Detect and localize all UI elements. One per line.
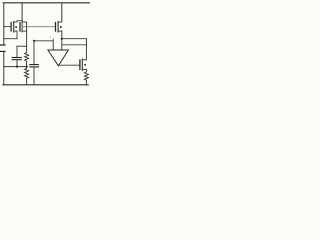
capacitor C2 bottom plate (30, 66, 39, 68)
node dot R1 bottom (26, 66, 28, 68)
wire source to left rail (4, 38, 17, 40)
wire M3 drain to top rail (61, 3, 63, 22)
wire M4 drain up (85, 39, 87, 60)
node dot C2 top (33, 40, 35, 42)
transistor M1 drain lead (14, 21, 17, 23)
transistor M1 gate bar (10, 23, 12, 32)
wire upper right bus (62, 38, 87, 40)
transistor M3 gate bar (55, 23, 57, 32)
wire M1 source down (16, 31, 18, 39)
wire op-amp plus input (34, 41, 53, 50)
node dot C1 bottom (16, 66, 18, 68)
wire node A to C1 (16, 46, 18, 57)
wire C2 top (33, 41, 35, 64)
transistor M3 body arrow (60, 26, 62, 28)
wire C2 bottom to ground rail (33, 67, 35, 84)
transistor M4 body arrow (84, 64, 86, 66)
battery V1 plate bottom (0, 50, 5, 52)
wire M2 source down to node A (26, 22, 28, 46)
transistor M2 drain lead (22, 21, 27, 23)
wire C1 down (16, 60, 18, 66)
resistor R2 (25, 67, 29, 85)
transistor M1 gate lead (4, 26, 11, 28)
transistor M1 channel bar (13, 22, 15, 33)
transistor M4 source lead (82, 68, 86, 70)
transistor M2 channel bar / drain from top rail (21, 3, 23, 32)
op-amp U1 (48, 50, 69, 66)
transistor M3 drain lead (58, 21, 62, 23)
wire lower left bus (4, 66, 27, 68)
wire M3 source down to op-amp input (61, 31, 63, 50)
battery V1 plate top (0, 44, 5, 46)
wire op-amp output to M4 gate (59, 64, 80, 66)
transistor M2 source lead (22, 30, 27, 32)
wire M1 drain up (17, 21, 22, 22)
transistor M1 source lead (14, 30, 17, 32)
node A wire (17, 45, 27, 47)
capacitor C1 bottom plate (12, 59, 21, 61)
bottom ground rail (3, 84, 88, 86)
transistor M1 body arrow (15, 26, 17, 28)
resistor R3 (84, 69, 88, 84)
wire left vertical upper (3, 3, 5, 45)
wire lower right bus (62, 44, 87, 46)
capacitor C1 top plate (12, 57, 21, 59)
wire left vertical lower (3, 51, 5, 84)
transistor M3 source lead (58, 30, 62, 32)
resistor R1 (25, 46, 29, 66)
node dot M3 source bus (61, 38, 63, 40)
transistor M4 channel bar (81, 59, 83, 70)
transistor M2 gate bar (19, 23, 21, 31)
transistor M4 drain lead (82, 59, 86, 61)
transistor M3 channel bar (57, 22, 59, 33)
transistor M4 gate bar (79, 60, 81, 69)
wire gate bus M2 to M3 (22, 26, 55, 28)
top supply rail (3, 2, 89, 4)
capacitor C2 top plate (30, 64, 39, 66)
op-amp plus input tick (52, 39, 54, 41)
plus label mark (50, 37, 51, 38)
